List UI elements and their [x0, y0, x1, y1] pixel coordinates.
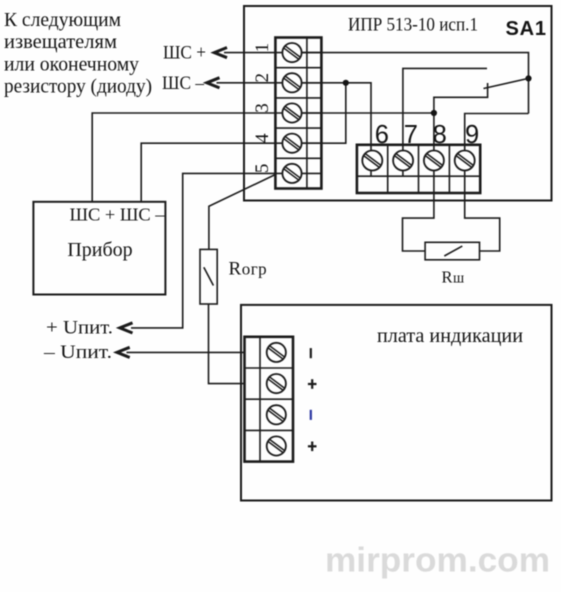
wire terminal 3 to Прибор ШС+	[92, 113, 292, 202]
screw terminal 9	[455, 151, 475, 171]
wire terminal 8 to switch contact	[434, 83, 488, 161]
svg-text:7: 7	[404, 121, 418, 149]
device box Прибор	[33, 202, 165, 295]
wire terminal 4 to Прибор ШС−	[141, 143, 292, 202]
screw terminal 4	[282, 134, 301, 153]
terminal 5 stub	[292, 172, 321, 174]
svg-text:5: 5	[252, 164, 273, 174]
wire terminal 1 to ШС + arrow	[224, 52, 292, 54]
wire terminal 5 to Rогр (diagonal)	[209, 175, 276, 250]
arrow − Uпит.	[117, 347, 130, 357]
wire terminal 8 to Rш left	[403, 161, 434, 252]
svg-text:Прибор: Прибор	[67, 239, 132, 261]
wire terminal 2 to terminal 6	[292, 83, 371, 161]
wire terminal 9 to switch common	[465, 114, 529, 161]
wire − Uпит. to indication board terminal 1	[127, 351, 245, 353]
terminal 1 stub	[292, 52, 321, 54]
wire terminal 9 to Rш right	[465, 161, 500, 252]
screw indication terminal 1	[267, 343, 286, 362]
terminal 2 stub	[292, 82, 321, 84]
screw terminal 6	[362, 151, 382, 171]
svg-text:Rш: Rш	[442, 268, 465, 287]
svg-text:1: 1	[252, 43, 273, 53]
label minus indication terminal 1	[310, 348, 312, 358]
svg-text:+ Uпит.: + Uпит.	[46, 318, 113, 339]
svg-text:резистору (диоду): резистору (диоду)	[4, 76, 152, 98]
switch SA1 blade	[484, 78, 529, 88]
device box ИПР 513-10 исп.1	[244, 6, 552, 201]
terminal block indication board outline	[245, 337, 294, 462]
svg-text:извещателям: извещателям	[4, 31, 117, 53]
arrow ШС −	[207, 78, 220, 88]
terminal block 6-9 outline	[357, 145, 480, 193]
svg-text:ИПР 513-10 исп.1: ИПР 513-10 исп.1	[348, 14, 478, 35]
device box плата индикации	[241, 305, 552, 501]
arrow + Uпит.	[120, 323, 133, 333]
terminal 6 stub	[370, 161, 372, 177]
screw terminal 2	[282, 73, 301, 92]
svg-text:6: 6	[375, 121, 389, 149]
svg-text:4: 4	[252, 133, 273, 143]
screw terminal 5	[282, 164, 301, 183]
screw indication terminal 3	[267, 405, 286, 424]
svg-text:2: 2	[252, 73, 273, 83]
junction dot node terminals 3-8	[431, 110, 437, 116]
screw terminal 7	[393, 151, 413, 171]
terminal 4 stub	[292, 142, 321, 144]
svg-text:ШС +: ШС +	[163, 43, 206, 64]
wire terminal 7 to switch contact	[403, 68, 487, 160]
wire Rогр to indication board terminal 2	[209, 304, 245, 384]
label К следующим извещателям или оконечному резистору (диоду)	[4, 9, 152, 98]
screw terminal 8	[424, 151, 444, 171]
label minus indication terminal 3	[310, 410, 312, 420]
screw indication terminal 2	[267, 374, 286, 393]
svg-text:SA1: SA1	[506, 18, 547, 40]
svg-text:3: 3	[252, 103, 273, 113]
junction dot switch common	[525, 75, 531, 81]
wire terminal 1 to switch SA1 common	[292, 53, 529, 114]
label plus indication terminal 4	[308, 442, 317, 452]
svg-text:8: 8	[433, 121, 447, 149]
junction dot node terminals 2-4-6	[343, 80, 349, 86]
terminal 3 stub	[292, 112, 321, 114]
wire terminal 5 to +Uпит arrow	[131, 173, 292, 328]
screw terminal 1	[282, 43, 301, 62]
svg-text:– Uпит.: – Uпит.	[43, 342, 112, 363]
svg-text:Rогр: Rогр	[229, 259, 268, 280]
terminal 7 stub	[402, 161, 404, 177]
screw indication terminal 4	[267, 436, 286, 455]
terminal block 1-5 inner lines	[275, 38, 321, 189]
svg-text:ШС + ШС –: ШС + ШС –	[70, 205, 165, 225]
svg-text:9: 9	[465, 121, 479, 149]
wire terminal 2 to ШС − arrow	[217, 82, 293, 84]
wire terminal 3 to terminal 8 junction	[292, 112, 434, 114]
svg-text:или оконечному: или оконечному	[4, 53, 139, 75]
svg-text:mirprom.com: mirprom.com	[325, 542, 550, 580]
terminal block 6-9 inner lines	[357, 145, 480, 193]
screw terminal 3	[282, 103, 301, 122]
resistor Rогр	[200, 249, 217, 304]
terminal block 1-5 outline	[275, 38, 321, 189]
label plus indication terminal 2	[308, 379, 317, 389]
arrow ШС +	[214, 48, 227, 58]
resistor Rш	[425, 242, 479, 259]
svg-text:плата индикации: плата индикации	[377, 325, 523, 347]
svg-text:ШС –: ШС –	[162, 73, 204, 94]
wire jumper terminal 2 to terminal 4	[292, 83, 346, 143]
svg-text:К следующим: К следующим	[4, 9, 121, 31]
terminal block indication board inner lines	[245, 337, 294, 462]
